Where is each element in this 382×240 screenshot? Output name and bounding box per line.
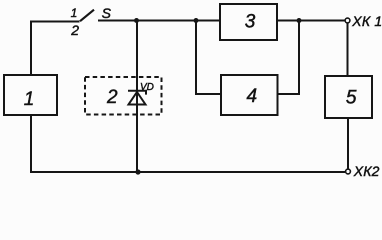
svg-text:2: 2 <box>70 22 79 38</box>
svg-text:2: 2 <box>106 87 118 108</box>
svg-text:5: 5 <box>346 88 357 109</box>
svg-text:1: 1 <box>24 89 35 110</box>
svg-text:4: 4 <box>247 86 258 107</box>
svg-text:3: 3 <box>245 11 256 32</box>
svg-text:ХК2: ХК2 <box>353 163 380 178</box>
svg-text:ХК 1: ХК 1 <box>351 13 382 29</box>
svg-text:1: 1 <box>71 6 78 20</box>
svg-text:VD: VD <box>140 82 154 93</box>
svg-text:S: S <box>102 5 112 21</box>
